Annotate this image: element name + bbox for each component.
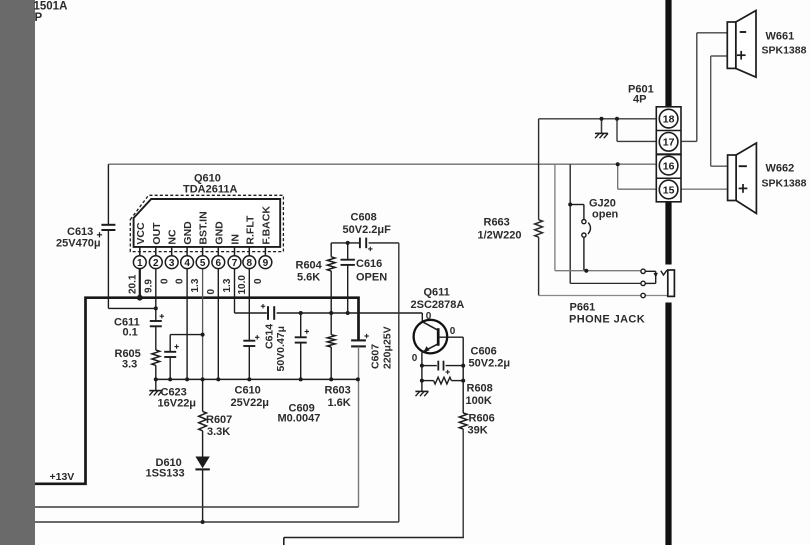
svg-text:1.3: 1.3: [190, 278, 201, 292]
svg-text:NC: NC: [167, 229, 179, 245]
svg-text:1.6K: 1.6K: [328, 397, 351, 409]
svg-text:0: 0: [412, 353, 418, 364]
svg-text:0: 0: [426, 311, 432, 322]
svg-text:16: 16: [663, 160, 675, 172]
svg-text:25V22μ: 25V22μ: [231, 397, 270, 409]
svg-text:10.0: 10.0: [237, 275, 248, 295]
svg-text:M0.0047: M0.0047: [278, 413, 321, 425]
svg-text:C616: C616: [356, 258, 382, 270]
svg-text:P: P: [35, 12, 43, 24]
svg-text:25V470μ: 25V470μ: [56, 238, 101, 250]
svg-text:IN: IN: [230, 234, 242, 245]
svg-text:1SS133: 1SS133: [146, 468, 185, 480]
svg-text:R603: R603: [325, 385, 351, 397]
svg-text:1/2W220: 1/2W220: [478, 230, 522, 242]
svg-text:SPK1388: SPK1388: [762, 45, 807, 57]
svg-text:16V22μ: 16V22μ: [158, 398, 197, 410]
svg-text:R.FLT: R.FLT: [244, 215, 256, 245]
svg-text:GND: GND: [182, 221, 194, 245]
svg-text:PHONE JACK: PHONE JACK: [569, 314, 645, 326]
svg-text:4: 4: [184, 258, 190, 269]
svg-text:8: 8: [247, 258, 253, 269]
svg-text:0: 0: [159, 278, 170, 284]
svg-text:7: 7: [232, 258, 238, 269]
svg-text:C606: C606: [471, 346, 497, 358]
svg-text:9: 9: [263, 258, 269, 269]
svg-text:GND: GND: [213, 221, 225, 245]
svg-text:W661: W661: [766, 31, 795, 43]
svg-text:0: 0: [450, 326, 456, 337]
svg-text:1: 1: [137, 258, 143, 269]
svg-text:C610: C610: [235, 385, 261, 397]
svg-text:0: 0: [253, 278, 264, 284]
svg-text:W662: W662: [766, 163, 795, 175]
svg-text:2SC2878A: 2SC2878A: [411, 299, 465, 311]
svg-text:C608: C608: [351, 212, 377, 224]
svg-text:50V2.2μF: 50V2.2μF: [343, 224, 392, 236]
svg-text:F.BACK: F.BACK: [260, 206, 272, 245]
svg-text:9.9: 9.9: [143, 279, 154, 293]
svg-text:4P: 4P: [633, 94, 646, 106]
svg-text:R663: R663: [484, 217, 510, 229]
svg-text:OPEN: OPEN: [356, 272, 387, 284]
svg-text:5.6K: 5.6K: [297, 272, 320, 284]
svg-text:+13V: +13V: [50, 471, 75, 483]
svg-text:5: 5: [200, 258, 206, 269]
svg-text:3: 3: [169, 258, 175, 269]
svg-text:OUT: OUT: [151, 222, 163, 245]
svg-text:open: open: [592, 209, 619, 221]
svg-text:R608: R608: [467, 383, 493, 395]
svg-text:C607: C607: [370, 344, 382, 369]
svg-text:2: 2: [153, 258, 159, 269]
svg-text:50V0.47μ: 50V0.47μ: [275, 326, 287, 372]
svg-text:C614: C614: [264, 324, 276, 349]
svg-text:0: 0: [206, 289, 217, 295]
svg-text:BST.IN: BST.IN: [198, 211, 210, 244]
svg-text:TDA2611A: TDA2611A: [183, 184, 237, 196]
svg-text:100K: 100K: [466, 395, 492, 407]
svg-text:C613: C613: [67, 226, 93, 238]
svg-text:R604: R604: [296, 260, 323, 272]
svg-text:39K: 39K: [468, 425, 488, 437]
svg-text:1501A: 1501A: [34, 1, 68, 13]
svg-text:R606: R606: [469, 413, 495, 425]
svg-text:50V2.2μ: 50V2.2μ: [469, 358, 511, 370]
svg-text:R607: R607: [206, 414, 232, 426]
svg-text:0: 0: [175, 278, 186, 284]
svg-text:220μ25V: 220μ25V: [382, 326, 394, 369]
svg-text:3.3K: 3.3K: [207, 426, 230, 438]
svg-text:6: 6: [216, 258, 222, 269]
svg-text:VCC: VCC: [135, 222, 147, 245]
svg-text:17: 17: [663, 137, 675, 149]
svg-text:SPK1388: SPK1388: [762, 178, 807, 190]
svg-text:P661: P661: [570, 302, 596, 314]
svg-text:1.3: 1.3: [222, 278, 233, 292]
svg-text:15: 15: [663, 184, 675, 196]
svg-text:20.1: 20.1: [127, 274, 138, 294]
svg-text:3.3: 3.3: [122, 359, 137, 371]
svg-text:0.1: 0.1: [123, 327, 138, 339]
svg-text:Q611: Q611: [424, 287, 450, 299]
svg-text:18: 18: [663, 113, 675, 125]
